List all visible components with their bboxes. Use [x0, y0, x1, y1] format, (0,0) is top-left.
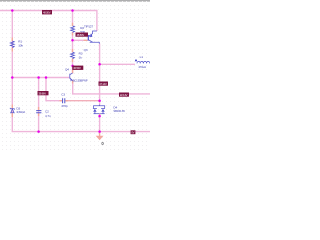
junction top R2 — [71, 9, 74, 12]
wire left vertical — [11, 11, 13, 132]
wire R2 bottom to base node — [72, 32, 74, 52]
capacitor C3 pin stubs — [60, 100, 69, 102]
svg-text:40.50V: 40.50V — [73, 66, 81, 70]
svg-text:4.7n: 4.7n — [45, 114, 51, 118]
wire C3 right to collector node — [66, 100, 100, 102]
inductor L1 pin square — [135, 60, 137, 62]
resistor R2 pin stubs — [72, 23, 74, 36]
diode D4 triangles — [93, 109, 96, 112]
junction bottom C2 — [37, 130, 40, 133]
junction mid-left — [11, 76, 14, 79]
junction C3 collector node — [98, 99, 101, 102]
wire Q4 collector down and right output — [73, 81, 150, 94]
svg-text:BC135BPNP: BC135BPNP — [73, 79, 88, 83]
junction Q3 base — [71, 39, 74, 42]
svg-text:47.14V: 47.14V — [99, 82, 107, 86]
bias voltage box Q3 base — [76, 33, 89, 37]
wire C2 branch down — [38, 78, 40, 132]
transistor Q4 emitter arrow — [70, 78, 72, 81]
bias voltage box collector node — [99, 82, 109, 86]
capacitor C2 pin stubs — [38, 107, 40, 116]
wire mid horizontal to Q4 base — [12, 77, 69, 79]
svg-text:470uH: 470uH — [138, 65, 146, 69]
resistor R2 — [71, 26, 75, 33]
svg-text:0V: 0V — [131, 131, 134, 135]
transistor Q3 emitter arrow — [89, 34, 92, 37]
svg-text:48.00V: 48.00V — [43, 11, 51, 15]
wire R2 top from rail — [72, 11, 74, 27]
resistor R3 pin stubs — [72, 49, 74, 62]
resistor R3 — [71, 52, 75, 59]
bias voltage box Q4 node — [72, 66, 83, 70]
wire top-right down to Q3 emitter — [96, 10, 98, 31]
junction mid C2 branch — [37, 76, 40, 79]
wire R3 bottom to Q4 — [72, 59, 74, 73]
wire Q3 collector vertical down — [99, 44, 101, 105]
ground 0 symbol — [96, 132, 104, 140]
svg-text:1N914A: 1N914A — [16, 110, 25, 114]
wire D4 bottom to ground rail — [99, 114, 101, 132]
diode D3 (zener) — [10, 108, 15, 113]
junction Q4 node — [71, 65, 74, 68]
svg-text:TIP127: TIP127 — [84, 25, 94, 29]
resistor R1 pin stubs — [11, 38, 13, 52]
wire bottom rail — [12, 131, 150, 133]
transistor Q4 pin stubs — [72, 70, 74, 84]
bias voltage box C2 node — [38, 91, 49, 95]
svg-text:L1: L1 — [140, 55, 144, 59]
bias voltage box output wire — [119, 93, 129, 97]
transistor Q4 — [70, 73, 73, 81]
junction L1 tap — [98, 63, 101, 66]
svg-text:C2: C2 — [45, 110, 49, 114]
junction bottom ground — [98, 130, 101, 133]
svg-text:SB160-65: SB160-65 — [113, 109, 125, 113]
diode D3 pin stubs — [11, 105, 13, 118]
svg-text:48.50V: 48.50V — [77, 33, 85, 37]
resistor R1 — [10, 41, 14, 48]
svg-text:470p: 470p — [61, 104, 68, 108]
wire top rail V+ — [0, 10, 97, 12]
svg-text:Q4: Q4 — [65, 67, 69, 71]
junction mid C3 branch — [45, 76, 48, 79]
bias voltage box top rail — [42, 10, 52, 15]
capacitor C3 — [63, 98, 65, 103]
wire C3 branch down and right — [46, 78, 62, 101]
bias voltage box ground 0V — [131, 130, 136, 134]
svg-text:10k: 10k — [18, 44, 23, 48]
diode D4 bottom pin stub — [99, 114, 101, 117]
junction D4 bottom — [98, 115, 101, 118]
wire Q3 base — [73, 39, 88, 41]
svg-text:1k: 1k — [79, 55, 83, 59]
transistor Q3 TIP127 — [84, 39, 88, 41]
svg-text:C3: C3 — [61, 93, 65, 97]
wire to L1 — [100, 63, 135, 65]
svg-text:22.14V: 22.14V — [120, 93, 128, 97]
junction top-left — [11, 9, 14, 12]
capacitor C2 — [36, 111, 41, 113]
diode D4 (dual schottky) — [93, 105, 105, 114]
svg-text:39.96V: 39.96V — [39, 91, 47, 95]
inductor L1 coil — [137, 61, 150, 63]
svg-text:Q3: Q3 — [84, 48, 88, 52]
